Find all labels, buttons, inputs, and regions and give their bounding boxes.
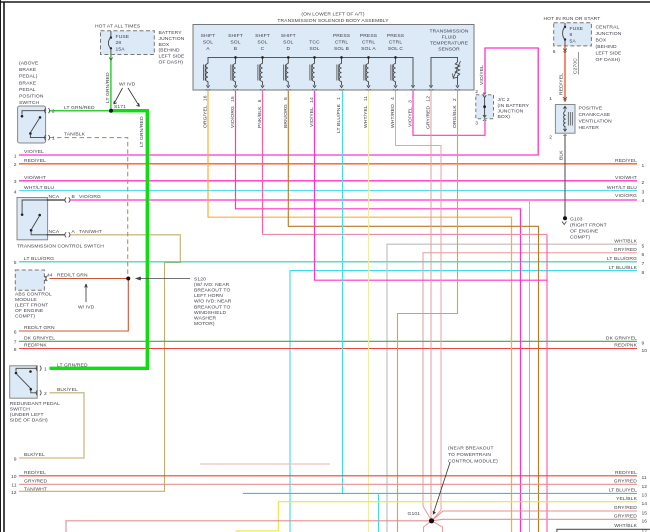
S171 junction <box>109 109 113 113</box>
wire VIO/ORG pin15 <box>236 91 521 532</box>
svg-text:CTRL: CTRL <box>362 40 376 46</box>
svg-text:W/O IVD: NEAR: W/O IVD: NEAR <box>194 299 232 305</box>
svg-text:RED/YEL: RED/YEL <box>24 158 46 164</box>
svg-text:15: 15 <box>642 510 648 516</box>
svg-text:S120: S120 <box>194 276 206 282</box>
svg-text:(BEHIND: (BEHIND <box>159 48 180 54</box>
svg-text:PNK/BLK 6: PNK/BLK 6 <box>257 99 263 128</box>
G103 ground <box>563 216 567 220</box>
svg-text:SOL: SOL <box>257 40 267 46</box>
svg-text:TCC: TCC <box>309 40 320 46</box>
wire WHT/BLK row17 <box>557 529 650 532</box>
svg-text:BLK: BLK <box>559 150 565 160</box>
svg-text:S171: S171 <box>114 104 126 110</box>
W/IVD arrows top <box>114 88 140 107</box>
wire GRY/RED row16 from G101 <box>432 519 638 521</box>
svg-text:WHT/LT BLU: WHT/LT BLU <box>24 185 54 191</box>
wire WHT/YEL pin11 <box>368 91 370 532</box>
svg-text:REDUNDANT PEDAL: REDUNDANT PEDAL <box>10 401 60 407</box>
svg-text:VIO/ORG: VIO/ORG <box>615 193 637 199</box>
svg-text:LEFT SIDE: LEFT SIDE <box>596 50 623 56</box>
svg-text:2: 2 <box>44 391 47 397</box>
svg-text:LT GRN/RED: LT GRN/RED <box>64 105 95 111</box>
svg-text:(ON LOWER LEFT OF A/T): (ON LOWER LEFT OF A/T) <box>301 12 364 18</box>
G103 label <box>570 216 607 240</box>
wire BLK PCV to G103 <box>564 135 566 218</box>
G101 ground <box>429 518 434 523</box>
svg-text:SENSOR: SENSOR <box>438 47 460 53</box>
redundant pedal switch label <box>10 401 60 424</box>
svg-text:LT BLU/YEL: LT BLU/YEL <box>609 488 637 494</box>
wire LT GRN/RED thick S171 to redundant pedal switch <box>50 111 148 369</box>
C270C connector tick <box>563 51 566 54</box>
svg-text:RED/LT GRN: RED/LT GRN <box>57 273 88 279</box>
svg-text:6: 6 <box>642 252 645 258</box>
wire RED/YEL row10 full width <box>19 475 637 477</box>
svg-text:RED/YEL: RED/YEL <box>615 158 637 164</box>
left rows 1-12 labels and numbers <box>24 149 55 492</box>
TFT thermistor zigzag <box>455 62 459 86</box>
positive crankcase ventilation heater box <box>555 105 575 134</box>
svg-text:WHT/RED 4: WHT/RED 4 <box>390 97 396 128</box>
svg-text:VENTILATION: VENTILATION <box>579 118 613 124</box>
svg-text:COMPT): COMPT) <box>570 234 590 240</box>
svg-text:WASHER: WASHER <box>194 316 217 322</box>
svg-text:OF DASH): OF DASH) <box>159 60 184 66</box>
svg-text:BRN/ORG 5: BRN/ORG 5 <box>283 97 289 128</box>
wire GRY/RED row6 to G101 <box>423 253 637 521</box>
svg-text:BREAKOUT TO: BREAKOUT TO <box>194 304 230 310</box>
svg-text:TEMPERATURE: TEMPERATURE <box>430 41 469 47</box>
svg-text:12: 12 <box>642 484 648 490</box>
svg-text:BOX: BOX <box>159 42 170 48</box>
svg-text:CONTROL MODULE): CONTROL MODULE) <box>448 459 498 465</box>
PCV heater label <box>579 105 613 131</box>
BPP switch internals <box>21 111 46 138</box>
svg-text:(BEHIND: (BEHIND <box>596 44 617 50</box>
PCV heater element <box>563 100 572 136</box>
svg-text:ORG/YEL 16: ORG/YEL 16 <box>203 95 209 128</box>
svg-text:5A: 5A <box>570 38 577 44</box>
svg-text:RED/LT GRN: RED/LT GRN <box>24 325 55 331</box>
wire GRY/RED row11 full width <box>19 483 637 485</box>
TCS internals <box>21 200 46 235</box>
svg-text:1: 1 <box>14 153 17 159</box>
ABS control module label <box>15 292 52 320</box>
svg-text:2: 2 <box>475 89 478 95</box>
svg-text:NCA: NCA <box>49 194 60 200</box>
wire RED/YEL fuse8 to PCV heater <box>564 46 566 102</box>
svg-text:8: 8 <box>14 347 17 353</box>
svg-text:CRANKCASE: CRANKCASE <box>579 112 611 118</box>
svg-text:6: 6 <box>14 329 17 335</box>
svg-text:RED/YEL: RED/YEL <box>24 470 46 476</box>
svg-text:BLK/YEL: BLK/YEL <box>57 387 78 393</box>
svg-text:WINDSHIELD: WINDSHIELD <box>194 310 227 316</box>
svg-text:SOL: SOL <box>230 40 240 46</box>
J/C 2 internals <box>483 93 486 121</box>
svg-text:G101: G101 <box>408 511 421 517</box>
svg-text:BRAKE: BRAKE <box>19 80 37 86</box>
svg-text:3: 3 <box>14 179 17 185</box>
wire faint GRY/RED mid segment <box>200 463 330 465</box>
ABS control module box (dashed) <box>15 270 44 290</box>
svg-text:LT BLU/BLK: LT BLU/BLK <box>609 265 638 271</box>
svg-text:PEDAL): PEDAL) <box>19 74 38 80</box>
svg-text:SWITCH: SWITCH <box>19 100 40 106</box>
svg-text:TO POWERTRAIN: TO POWERTRAIN <box>448 452 491 458</box>
svg-text:MOTOR): MOTOR) <box>194 321 215 327</box>
svg-text:BRAKE: BRAKE <box>19 67 37 73</box>
svg-text:VIO/YEL: VIO/YEL <box>24 149 44 155</box>
svg-text:HOT AT ALL TIMES: HOT AT ALL TIMES <box>95 24 141 30</box>
svg-text:TRANSMISSION CONTROL SWITCH: TRANSMISSION CONTROL SWITCH <box>17 244 104 250</box>
svg-text:DK GRN/YEL: DK GRN/YEL <box>24 336 55 342</box>
wire RED/LT GRN ABS pin44 to S120 <box>50 278 129 280</box>
svg-text:2: 2 <box>52 109 55 115</box>
wire VIO/YEL pin14 <box>315 91 548 280</box>
svg-text:15A: 15A <box>116 46 126 52</box>
svg-text:SWITCH: SWITCH <box>10 406 31 412</box>
svg-text:VIO/ORG 15: VIO/ORG 15 <box>230 96 236 128</box>
wire WHT/LT BLU row4 full width <box>19 190 637 192</box>
transmission solenoid body assembly box <box>193 25 474 91</box>
svg-text:1: 1 <box>52 136 55 142</box>
wire ORG/BLK pin2 <box>398 91 458 532</box>
transmission control switch box <box>17 198 48 240</box>
svg-text:OF ENGINE: OF ENGINE <box>15 308 44 314</box>
G101 label leader arrow <box>433 463 450 515</box>
battery junction box fuse 28 (dashed) <box>101 31 155 55</box>
wire GRY/RED row15 from G101 <box>432 511 638 521</box>
wire VIO/ORG branch down at 529.5 <box>529 199 531 532</box>
rotated wire labels under solenoid box <box>203 95 459 133</box>
svg-text:GRY/RED: GRY/RED <box>614 505 638 511</box>
S120 junction <box>126 277 130 281</box>
svg-text:(UNDER LEFT: (UNDER LEFT <box>10 412 44 418</box>
svg-text:BOX: BOX <box>596 37 607 43</box>
coil press ctrl sol C <box>391 64 397 88</box>
svg-text:YEL/BLK: YEL/BLK <box>616 496 637 502</box>
brake pedal position switch box <box>18 106 46 143</box>
svg-text:(W/ IVD: NEAR: (W/ IVD: NEAR <box>194 282 230 288</box>
svg-text:SOL A: SOL A <box>361 46 376 52</box>
svg-text:(LEFT FRONT: (LEFT FRONT <box>15 303 48 309</box>
svg-text:FUSE: FUSE <box>116 34 130 40</box>
svg-text:4: 4 <box>14 189 17 195</box>
svg-text:11: 11 <box>11 483 16 489</box>
svg-text:5: 5 <box>642 243 645 249</box>
svg-text:10: 10 <box>642 348 648 354</box>
S120 label <box>194 276 232 327</box>
svg-text:C: C <box>261 46 265 52</box>
svg-text:44: 44 <box>47 273 53 279</box>
svg-text:VIO/WHT: VIO/WHT <box>615 175 637 181</box>
svg-text:8: 8 <box>642 270 645 276</box>
right rows numbers <box>642 163 648 532</box>
svg-text:B: B <box>234 46 238 52</box>
fuse 8 symbol <box>563 23 567 100</box>
coil tcc sol <box>310 64 316 88</box>
svg-text:TAN/WHT: TAN/WHT <box>79 229 102 235</box>
svg-text:17: 17 <box>642 529 648 532</box>
svg-text:B: B <box>72 194 76 200</box>
svg-text:(ABOVE: (ABOVE <box>19 61 39 67</box>
svg-text:GRY/RED: GRY/RED <box>24 479 48 485</box>
svg-text:1: 1 <box>642 163 645 169</box>
wire VIO/YEL row1 to J/C2 pin2 <box>19 48 538 155</box>
central junction box fuse 8 (dashed) <box>554 23 592 46</box>
pin3 branch arrow <box>411 85 414 87</box>
svg-text:FLUID: FLUID <box>442 35 457 41</box>
svg-text:POSITIVE: POSITIVE <box>579 105 603 111</box>
svg-text:5: 5 <box>14 260 17 266</box>
wire BLK/YEL pedal pin2 to left row9 <box>19 393 84 458</box>
W/IVD arrow at ABS <box>85 284 88 302</box>
right rows labels <box>606 158 638 529</box>
svg-text:VIO/ORG: VIO/ORG <box>79 194 101 200</box>
svg-text:SOL B: SOL B <box>334 46 350 52</box>
svg-text:1: 1 <box>549 96 552 102</box>
svg-text:RED/PNK: RED/PNK <box>614 343 637 349</box>
svg-text:NCA: NCA <box>49 229 60 235</box>
svg-text:J/C 2: J/C 2 <box>498 97 510 103</box>
svg-text:1: 1 <box>44 366 47 372</box>
svg-text:SHIFT: SHIFT <box>201 33 216 39</box>
svg-text:3: 3 <box>475 121 478 127</box>
svg-text:TRANSMISSION: TRANSMISSION <box>429 29 468 35</box>
ABS pin connector <box>45 276 48 281</box>
J/C 2 label <box>498 97 530 120</box>
NEAR BREAKOUT label <box>448 446 498 465</box>
svg-text:10: 10 <box>11 474 17 480</box>
svg-text:OF DASH): OF DASH) <box>596 57 621 63</box>
wire RED/LT GRN S120 to left row6 <box>19 279 128 332</box>
svg-text:PEDAL: PEDAL <box>19 87 36 93</box>
TCS pin connectors <box>65 198 70 238</box>
wire YEL/BLK row14 <box>236 502 637 531</box>
central junction box label <box>596 24 623 63</box>
svg-text:12: 12 <box>11 490 17 496</box>
wire WHT/BLK row5 right <box>387 244 637 532</box>
BPP pin connectors <box>45 108 50 140</box>
wire BRN/ORG pin5 <box>288 91 538 532</box>
svg-text:11: 11 <box>642 475 647 481</box>
TFT sensor bracket and legs <box>431 57 458 86</box>
svg-text:RED/YEL: RED/YEL <box>559 73 565 95</box>
svg-text:LT GRN/RED: LT GRN/RED <box>105 72 111 103</box>
svg-text:PRESS: PRESS <box>333 33 351 39</box>
svg-text:D: D <box>286 46 290 52</box>
svg-text:BATTERY: BATTERY <box>159 30 183 36</box>
svg-text:WHT/BLK: WHT/BLK <box>614 523 637 529</box>
svg-text:JUNCTION: JUNCTION <box>498 108 524 114</box>
svg-text:GRY/RED: GRY/RED <box>614 479 638 485</box>
svg-text:3: 3 <box>642 190 645 196</box>
svg-text:COMPT): COMPT) <box>15 314 35 320</box>
svg-text:CENTRAL: CENTRAL <box>596 24 620 30</box>
svg-text:SHIFT: SHIFT <box>281 33 296 39</box>
redundant pedal switch internals <box>15 368 38 393</box>
svg-text:13: 13 <box>642 493 648 499</box>
svg-text:7: 7 <box>642 261 645 267</box>
svg-text:RED/PNK: RED/PNK <box>24 343 47 349</box>
svg-text:2: 2 <box>549 135 552 141</box>
bus junction dots <box>234 56 397 59</box>
svg-text:CTRL: CTRL <box>389 40 403 46</box>
wire TAN/BLK dashed BPP pin1 to S120 <box>50 138 128 276</box>
svg-text:8: 8 <box>570 32 573 38</box>
svg-text:ORG/BLK 2: ORG/BLK 2 <box>452 98 458 128</box>
svg-text:SOL C: SOL C <box>388 46 404 52</box>
svg-text:ABS CONTROL: ABS CONTROL <box>15 292 52 298</box>
svg-text:9: 9 <box>14 456 17 462</box>
svg-text:JUNCTION: JUNCTION <box>159 36 185 42</box>
svg-text:W/ IVD: W/ IVD <box>78 305 95 311</box>
coil press ctrl sol B <box>337 64 343 88</box>
svg-text:A: A <box>206 46 210 52</box>
svg-text:GRY/RED: GRY/RED <box>614 247 638 253</box>
svg-text:TAN/BLK: TAN/BLK <box>64 132 86 138</box>
fuse 28 symbol <box>108 31 112 60</box>
wire LT GRN/RED fuse28 to S171 <box>110 55 112 111</box>
svg-text:G103: G103 <box>570 216 583 222</box>
wire ORG/YEL pin16 <box>208 91 512 532</box>
wire RED/YEL row2 full width <box>19 163 637 165</box>
svg-text:2: 2 <box>642 180 645 186</box>
svg-text:W/ IVD: W/ IVD <box>119 82 136 88</box>
svg-text:RED/YEL: RED/YEL <box>615 470 637 476</box>
svg-text:OF ENGINE: OF ENGINE <box>570 228 599 234</box>
wire VIO/ORG from TCS pin B to right edge <box>70 199 637 201</box>
wire VIO/WHT row3 full width <box>19 180 637 182</box>
svg-text:WHT/YEL 11: WHT/YEL 11 <box>363 96 369 128</box>
svg-text:GRY/RED 12: GRY/RED 12 <box>426 96 432 129</box>
svg-text:FUSE: FUSE <box>570 26 584 32</box>
wire PNK/BLK pin6 <box>262 91 264 234</box>
svg-text:VIO/WHT: VIO/WHT <box>24 175 46 181</box>
wire LT GRN/RED BPP switch pin2 to S171 <box>50 110 112 112</box>
svg-text:7: 7 <box>14 340 17 346</box>
svg-text:WHT/BLK: WHT/BLK <box>614 238 637 244</box>
svg-text:VIO/YEL 14: VIO/YEL 14 <box>309 97 315 127</box>
wire LT BLU/PNK pin1 <box>342 91 344 493</box>
wire LT BLU/BLK row8 <box>290 271 637 532</box>
svg-text:WHT/LT BLU: WHT/LT BLU <box>607 185 637 191</box>
svg-text:SOL: SOL <box>203 40 213 46</box>
solenoid column labels <box>201 29 469 53</box>
svg-text:LEFT SIDE: LEFT SIDE <box>159 54 186 60</box>
wire G101 down branches <box>424 521 443 532</box>
svg-text:LEFT HORN: LEFT HORN <box>194 293 223 299</box>
S120 leader line <box>136 277 190 280</box>
svg-text:SIDE OF DASH): SIDE OF DASH) <box>10 417 48 423</box>
svg-text:GRY/RED: GRY/RED <box>614 514 638 520</box>
svg-text:PRESS: PRESS <box>360 33 378 39</box>
wire LT BLU/YEL row13 <box>243 492 637 494</box>
wire GRY/RED G101 left branch <box>66 521 432 532</box>
svg-text:TAN/WHT: TAN/WHT <box>24 487 47 493</box>
svg-text:SOL: SOL <box>283 40 293 46</box>
svg-text:HEATER: HEATER <box>579 125 600 131</box>
svg-text:A: A <box>72 229 76 235</box>
svg-text:HOT IN RUN OR START: HOT IN RUN OR START <box>544 16 601 22</box>
svg-text:16: 16 <box>642 519 648 525</box>
redundant pedal switch box <box>10 366 38 398</box>
svg-text:(NEAR BREAKOUT: (NEAR BREAKOUT <box>448 446 494 452</box>
battery junction box label <box>159 30 186 66</box>
svg-text:TRANSMISSION SOLENOID BODY ASS: TRANSMISSION SOLENOID BODY ASSEMBLY <box>277 18 389 24</box>
svg-text:LT GRN/RED: LT GRN/RED <box>139 116 145 147</box>
svg-text:DK GRN/YEL: DK GRN/YEL <box>606 336 637 342</box>
svg-text:2: 2 <box>14 162 17 168</box>
coil press ctrl sol A <box>364 64 370 88</box>
brake pedal position switch label <box>19 61 44 107</box>
svg-text:VIO/YEL: VIO/YEL <box>479 65 485 85</box>
svg-text:28: 28 <box>116 40 122 46</box>
wire RED/PNK row8 full width <box>19 348 637 350</box>
svg-text:BOX): BOX) <box>498 114 511 120</box>
svg-text:14: 14 <box>642 501 648 507</box>
svg-text:BREAKOUT TO: BREAKOUT TO <box>194 288 230 294</box>
svg-text:SHIFT: SHIFT <box>228 33 243 39</box>
svg-text:(RIGHT FRONT: (RIGHT FRONT <box>570 222 607 228</box>
wire GRY/RED pin12 to G101 <box>430 91 432 521</box>
coil shift sol D <box>284 64 290 88</box>
svg-text:MODULE: MODULE <box>15 297 37 303</box>
svg-text:POSITION: POSITION <box>19 94 44 100</box>
wire WHT/RED pin4 to G101 <box>396 91 442 521</box>
svg-text:PRESS: PRESS <box>387 33 405 39</box>
wire LT BLU/ORG row5 full width <box>19 261 637 263</box>
svg-text:SHIFT: SHIFT <box>255 33 270 39</box>
svg-text:LT BLU/ORG: LT BLU/ORG <box>24 256 54 262</box>
J/C 2 box (dashed) <box>476 95 494 119</box>
svg-text:4: 4 <box>642 198 645 204</box>
svg-text:SOL: SOL <box>309 46 319 52</box>
solenoid box pin connectors <box>206 89 460 90</box>
solenoid bus wire <box>208 57 413 86</box>
wire LT BLU/YEL branch down <box>378 493 380 532</box>
coil shift sol C <box>258 64 264 88</box>
svg-text:LT GRN/RED: LT GRN/RED <box>57 363 88 369</box>
svg-text:BLK/YEL: BLK/YEL <box>24 452 45 458</box>
svg-text:(IN BATTERY: (IN BATTERY <box>498 103 530 109</box>
svg-text:LT BLU/PNK 1: LT BLU/PNK 1 <box>336 97 342 133</box>
redundant pedal pin connectors <box>36 366 41 396</box>
coil shift sol B <box>231 64 237 88</box>
svg-text:6: 6 <box>553 49 556 55</box>
wire VIO/YEL J/C2 pin3 to solenoid pin3 <box>413 91 485 135</box>
coil shift sol A <box>203 64 209 88</box>
svg-text:JUNCTION: JUNCTION <box>596 31 622 37</box>
svg-text:VIO/YEL 3: VIO/YEL 3 <box>408 100 414 127</box>
svg-text:C270C: C270C <box>573 58 579 74</box>
svg-text:LT BLU/ORG: LT BLU/ORG <box>607 256 637 262</box>
svg-text:9: 9 <box>642 341 645 347</box>
bus stubs <box>236 57 396 63</box>
wire DK GRN/YEL row7 full width <box>19 340 637 342</box>
wire TAN/WHT from TCS pin A to left row 12 <box>19 235 180 492</box>
svg-text:CTRL: CTRL <box>335 40 349 46</box>
